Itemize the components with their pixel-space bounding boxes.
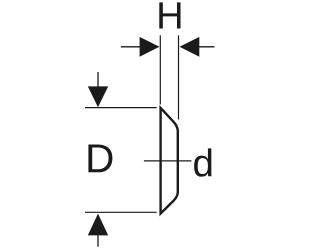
D-dim bottom arrow <box>88 214 108 247</box>
label D <box>88 144 112 172</box>
wire H-dim right extension line <box>178 35 180 119</box>
seal cross-section outline <box>161 108 178 214</box>
label H <box>159 2 180 28</box>
D-dim top arrow <box>88 72 108 107</box>
wire center line d <box>144 160 192 162</box>
wire D-dim bottom extension line <box>85 211 157 213</box>
H-dim left arrow <box>121 37 160 57</box>
H-dim right arrow <box>180 37 215 57</box>
wire D-dim top extension line <box>85 107 157 109</box>
wire H-dim left extension line <box>159 35 161 104</box>
label d <box>194 148 211 176</box>
